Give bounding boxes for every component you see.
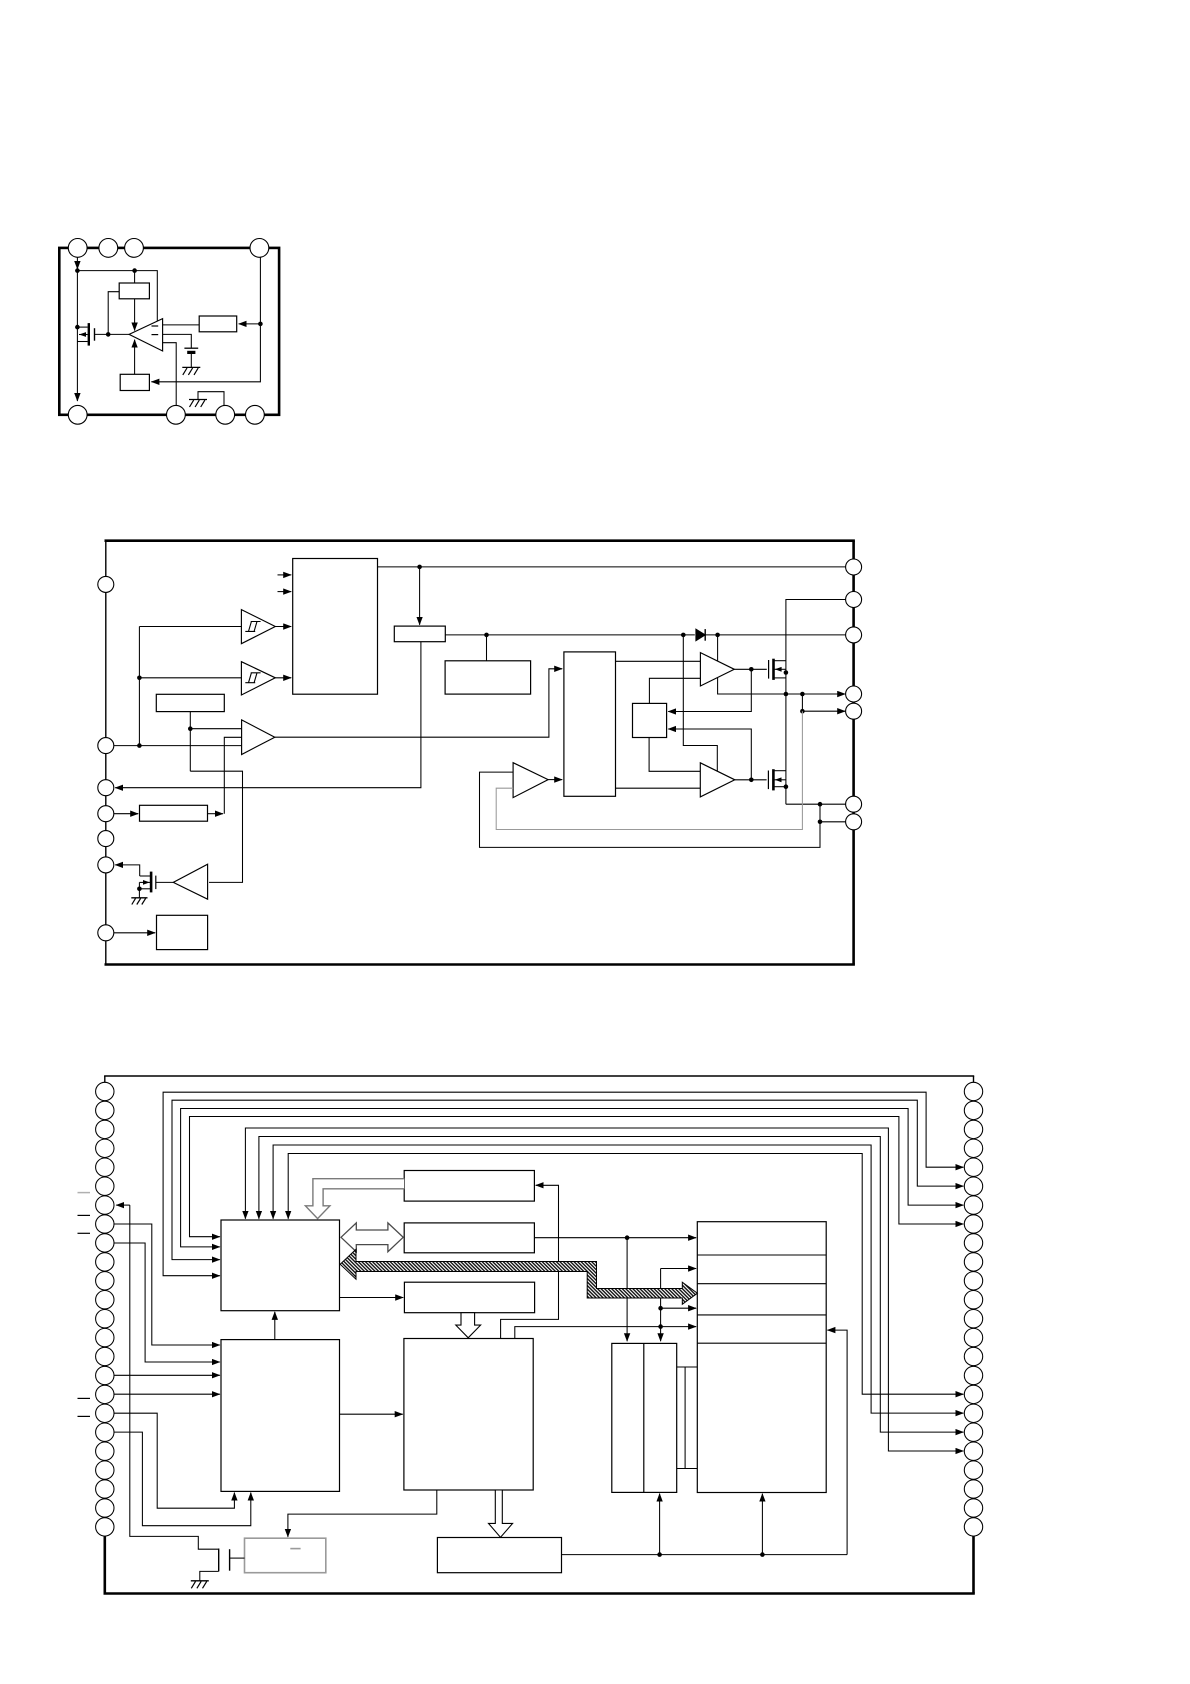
register block R1: [404, 1171, 534, 1202]
node regulator tap: [417, 565, 422, 570]
ground FET3: [131, 897, 147, 899]
wire diode anode to driver2 top: [683, 635, 717, 771]
transistor Q22 (low FET): [768, 769, 786, 790]
wire down to regulator: [419, 567, 421, 625]
node diode cathode: [715, 633, 720, 638]
wire comp3 top input: [190, 728, 241, 730]
wire diode cathode to driver1 top: [717, 635, 719, 661]
wire B top to A: [274, 1312, 276, 1340]
IC2 outline: [105, 541, 107, 965]
resistor R1: [119, 283, 149, 299]
wire top rail: [77, 271, 157, 322]
wire A4 out to sequencer: [548, 779, 562, 781]
wire comp2 out: [275, 677, 291, 679]
node black feedback tap: [818, 820, 823, 825]
wire input bus vertical: [138, 627, 140, 746]
wire C bottom to G: [288, 1490, 437, 1537]
pin 6L: [98, 857, 114, 873]
wire U26 out2 to driver2: [616, 787, 701, 789]
pin 5L: [98, 831, 114, 847]
inverter A7 (points left): [173, 864, 207, 899]
bus wire PB1: [259, 1137, 964, 1433]
pin 6R: [846, 796, 862, 812]
wire driver2 out to FET2 gate: [735, 779, 767, 781]
logic block U21: [293, 559, 378, 695]
wire clock to D: [659, 1494, 661, 1555]
node comp3 top input: [188, 726, 193, 731]
wire gate stub: [95, 333, 130, 335]
pin label dashes: [78, 1192, 91, 1194]
wire pin5R tap: [802, 694, 845, 711]
bus wire PB3: [288, 1154, 963, 1395]
register block R3: [404, 1282, 534, 1313]
block E (ROM): [697, 1222, 826, 1493]
wire pin7R tap: [820, 804, 846, 822]
hatched Z-arrow E to A: [340, 1249, 697, 1304]
gray dash in G: [290, 1548, 300, 1550]
wire FET3 source to ground: [138, 882, 140, 897]
transistor Q31 (osc FET): [219, 1549, 245, 1572]
node source tie: [784, 670, 789, 675]
wire U22 right rail: [445, 634, 695, 636]
wire diode to pin3R: [705, 634, 846, 636]
node FET3 source: [137, 887, 142, 892]
node driver1 out: [749, 667, 754, 672]
wire input stub 1: [278, 574, 292, 576]
node bus cross: [784, 692, 789, 697]
wire tap down to D: [626, 1238, 628, 1342]
hollow arrow R3 to C: [456, 1313, 481, 1338]
pin 3: [125, 239, 144, 258]
ground below C1: [182, 366, 200, 368]
wire R1 left pin to gate node: [108, 292, 119, 335]
ground symbol bottom: [189, 399, 207, 401]
node FET2 source: [784, 784, 789, 789]
driver A4 (mid): [513, 763, 548, 798]
capacitor C1: [184, 347, 198, 349]
regulator block U22: [394, 626, 445, 642]
pin 2: [99, 239, 118, 258]
diode D1: [696, 629, 705, 641]
hollow L-arrow R1 to A (gray): [305, 1179, 404, 1219]
wire pin18L to B bottom: [114, 1413, 235, 1508]
wire pin7L to oscillator FET: [116, 1204, 130, 1206]
wire amp mid to capacitor: [163, 334, 192, 348]
right pin chain 1-24: [964, 1082, 982, 1536]
pin 4R: [846, 686, 862, 702]
wire gray feedback to A4: [496, 711, 802, 829]
wire to E row3: [661, 1307, 697, 1309]
ground Q31: [191, 1580, 209, 1582]
wire U22 bottom pin to pin3L: [115, 642, 421, 788]
wire tap1 to U23: [486, 635, 488, 661]
block U28: [157, 915, 208, 949]
wire pin17L to B in4: [114, 1393, 220, 1395]
bus wire PA1: [172, 1100, 963, 1259]
wire amp lower-right to pin7: [163, 343, 177, 406]
wire comp3 mid input from delay: [224, 737, 241, 813]
left pin chain 1-24: [96, 1082, 114, 1536]
pin 5 (bottom-right): [246, 405, 265, 424]
node E clock tap: [760, 1552, 765, 1557]
pin 1R: [846, 559, 862, 575]
block C (logic): [404, 1339, 533, 1491]
wire F clock bus: [562, 1554, 848, 1556]
wire right rail from pin4 to R3: [151, 257, 260, 382]
node pin6R tap: [818, 802, 823, 807]
pin 4L: [98, 806, 114, 822]
wire latch top to driver1: [649, 678, 700, 703]
wire R1 top pin: [134, 271, 136, 283]
node R1 top: [132, 268, 137, 273]
register block R2: [404, 1223, 534, 1253]
delay block U25: [140, 805, 208, 821]
wire U24 bottom pin: [189, 712, 191, 772]
wire C top2 to E bus: [515, 1327, 661, 1339]
pin 3L: [98, 780, 114, 796]
wire latch set input: [668, 669, 751, 711]
pin 6 (bottom): [216, 405, 235, 424]
hollow double arrow A-R2: [341, 1223, 403, 1252]
wire pin VDD to comp3: [114, 745, 242, 747]
wire FET2 source to pin6R: [786, 803, 846, 805]
node gate: [106, 332, 111, 337]
wire into R2 from right rail: [239, 323, 261, 325]
node E row4 tap: [658, 1324, 663, 1329]
wire C top to R1: [501, 1185, 559, 1338]
wire latch bottom to driver2: [649, 738, 700, 772]
pin 1 (top-left): [68, 239, 87, 258]
wire U26 out1 to driver1: [616, 660, 701, 662]
node comp2 tap: [137, 676, 142, 681]
sequencer block U26: [564, 652, 616, 796]
wire R1 bottom pin into amp: [134, 299, 136, 331]
block F (timing gen): [437, 1538, 561, 1573]
wire Q31 source to ground: [200, 1571, 219, 1580]
bus wire PB0: [245, 1128, 963, 1451]
node tap1: [484, 633, 489, 638]
node drain junction: [75, 325, 80, 330]
bus wire PA2: [181, 1109, 964, 1247]
pin 7L: [98, 925, 114, 941]
left rail wire: [76, 271, 78, 401]
wire A to R3: [340, 1297, 404, 1299]
wire pin4L to delay: [114, 813, 138, 815]
node right rail tap: [258, 322, 263, 327]
bus wire PA3: [190, 1117, 964, 1237]
wire from pin1 down: [76, 257, 78, 269]
IC3 outline: [104, 1076, 106, 1594]
hysteresis glyph: [245, 673, 260, 683]
pin 1L: [98, 576, 114, 592]
pin 2L: [98, 738, 114, 754]
block U23 (osc): [445, 661, 530, 694]
wire E-D vertical: [660, 1269, 662, 1342]
comparator A3: [242, 720, 275, 755]
node D clock tap: [657, 1552, 662, 1557]
block G (osc, gray): [245, 1538, 326, 1573]
driver A6 (low side): [700, 763, 735, 797]
node diode anode: [681, 633, 686, 638]
comparator A1 (hysteresis): [241, 610, 275, 644]
wire U21 out to pin top-right: [378, 566, 846, 568]
wire to E row2: [661, 1268, 697, 1270]
block D (RAM): [612, 1343, 677, 1492]
node at left rail top: [75, 268, 80, 273]
wire inverter out to FET3 gate: [156, 881, 174, 883]
node tap cross: [800, 692, 805, 697]
pin 7R: [846, 814, 862, 830]
wire comp1 out: [275, 626, 291, 628]
wire pin19L to B bottom: [114, 1432, 251, 1526]
ground jog to pin6: [198, 392, 224, 406]
node E row3 tap: [658, 1306, 663, 1311]
pin 8 (bottom-left): [68, 405, 87, 424]
resistor R3 (bias block): [120, 374, 149, 390]
pin 3R: [846, 627, 862, 643]
amp input marks: [152, 325, 159, 327]
IC1 package outline: [59, 248, 279, 415]
node driver2 out: [749, 778, 754, 783]
block A (CPU): [221, 1220, 340, 1311]
hysteresis glyph: [245, 622, 260, 632]
wire black feedback to A4: [480, 772, 821, 847]
wire clock to E right: [827, 1330, 847, 1555]
node VDD tap: [137, 743, 142, 748]
wire clock to E: [761, 1494, 763, 1555]
pin 2R: [846, 592, 862, 608]
transistor Q23 (small NMOS): [139, 872, 155, 893]
block U24 (ref): [156, 694, 224, 711]
driver A5 (high side): [700, 653, 734, 686]
wire comp1 input: [139, 626, 241, 628]
pin 5R: [846, 703, 862, 719]
wire amp out to R2: [163, 324, 200, 326]
D-E connector bus: [677, 1366, 698, 1368]
wire FET3 drain to pin6L: [115, 865, 140, 876]
wire driver1 bottom to pin4R: [718, 678, 846, 694]
op-amp U1 (error amp, points left): [129, 319, 163, 351]
pin 4 (top-right): [250, 239, 269, 258]
wire B to C: [340, 1413, 403, 1415]
transistor Q21 (high FET): [769, 659, 786, 680]
wire input stub 2: [278, 591, 292, 593]
wire comp3 out to sequencer: [275, 669, 562, 737]
bus wire PB2: [273, 1145, 963, 1413]
block B (I/O control): [221, 1340, 340, 1492]
wire FET1 drain to pin2R: [786, 600, 846, 805]
comparator A2 (hysteresis): [241, 662, 275, 695]
bus wire PA0: [163, 1092, 963, 1276]
latch block U27: [633, 703, 667, 737]
pin 7 (bottom): [167, 405, 186, 424]
wire R2 to E row1: [534, 1237, 696, 1239]
wire pin9L to B in2: [114, 1243, 220, 1362]
resistor R2 (feedback block): [199, 316, 237, 332]
wire pin8L to B in1: [114, 1224, 220, 1345]
wire comp2 input: [139, 677, 241, 679]
transistor Q1 (pass PMOS): [77, 323, 94, 346]
wire latch reset input: [668, 729, 751, 780]
wire delay out arrow: [208, 813, 224, 815]
wire R3 top pin to amp: [134, 340, 136, 375]
wire pin16L to B in3: [114, 1374, 220, 1376]
hollow arrow C to F: [489, 1490, 513, 1537]
node gray feedback tap: [800, 709, 805, 714]
wire driver1 out to FET1 gate: [734, 668, 767, 670]
wire pin7L to U28: [114, 932, 155, 934]
node R2-E tap: [625, 1235, 630, 1240]
wire to E row4: [661, 1326, 697, 1328]
wire to inverter: [190, 771, 242, 882]
